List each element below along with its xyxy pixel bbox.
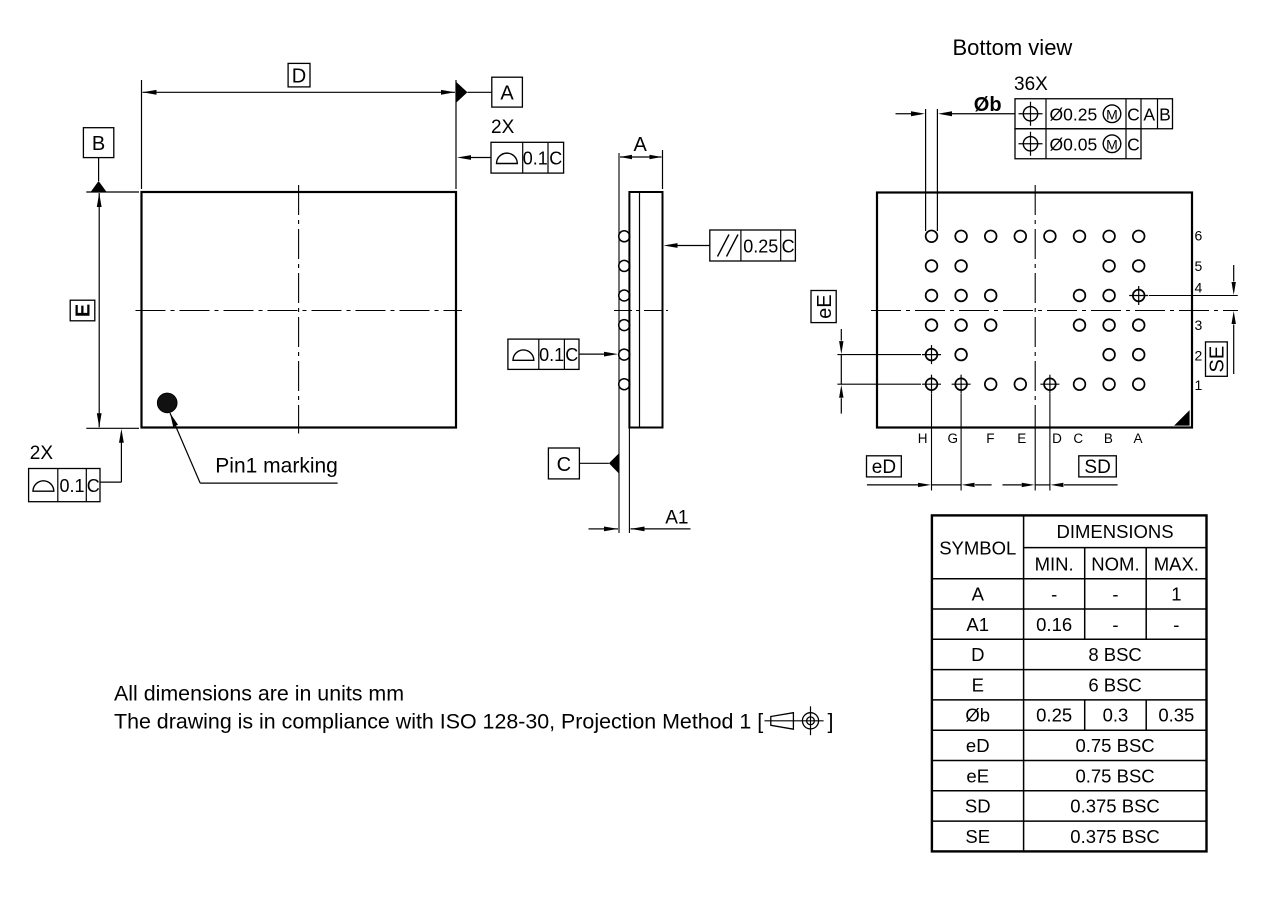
- dimensions table: [932, 515, 1207, 851]
- svg-text:SE: SE: [965, 826, 990, 847]
- ball column letters H-A: [918, 431, 1143, 446]
- datum A boxed label: [492, 77, 523, 107]
- side view package body outline: [629, 192, 662, 428]
- dimension E boxed label (rotated): [70, 300, 95, 321]
- svg-text:8 BSC: 8 BSC: [1088, 644, 1141, 665]
- svg-text:SD: SD: [1084, 457, 1110, 478]
- svg-text:F: F: [986, 431, 994, 446]
- bottom view package body outline: [877, 193, 1192, 428]
- svg-text:Pin1 marking: Pin1 marking: [215, 454, 338, 477]
- svg-text:NOM.: NOM.: [1091, 554, 1139, 575]
- bottom view horizontal centerline: [871, 310, 1238, 312]
- feature control frame: profile 0.1 C (top right): [491, 142, 564, 173]
- svg-text:C: C: [557, 454, 571, 476]
- svg-text:SYMBOL: SYMBOL: [939, 537, 1016, 558]
- 2X count label (top right): [491, 117, 515, 138]
- svg-text:Ø0.25: Ø0.25: [1050, 105, 1098, 125]
- dimension SD extension lines (centerline and ball D1): [1035, 394, 1050, 491]
- dimension eD extension lines from balls H1 G1: [932, 394, 962, 491]
- svg-text:0.35: 0.35: [1158, 705, 1194, 726]
- dimension E extension lines: [86, 192, 139, 428]
- svg-text:A: A: [500, 83, 514, 105]
- datum feature symbol C (filled triangle): [579, 453, 619, 473]
- svg-text:0.1: 0.1: [59, 476, 84, 496]
- svg-text:-: -: [1112, 583, 1118, 604]
- leader arrow from parallelism FCF to package edge: [664, 243, 710, 248]
- svg-text:C: C: [1127, 135, 1140, 155]
- leader from bottom left FCF up to bottom extension line: [100, 429, 124, 482]
- first angle projection symbol: [765, 706, 824, 735]
- svg-text:E: E: [1017, 431, 1026, 446]
- svg-text:A: A: [634, 134, 648, 156]
- svg-text:D: D: [1052, 431, 1062, 446]
- feature control frame: parallelism 0.25 C: [710, 230, 796, 261]
- diameter b label: [974, 94, 1002, 116]
- pin A1 corner index triangle: [1174, 410, 1190, 426]
- svg-text:C: C: [1127, 105, 1140, 125]
- feature control frame: position dia 0.05 M C: [1015, 129, 1141, 159]
- note line 2 with projection method symbol: [114, 709, 833, 733]
- svg-text:0.75 BSC: 0.75 BSC: [1075, 735, 1154, 756]
- feature control frame: position dia 0.25 M C A B: [1015, 99, 1173, 129]
- svg-text:MIN.: MIN.: [1035, 554, 1074, 575]
- svg-text:0.375 BSC: 0.375 BSC: [1070, 826, 1159, 847]
- svg-text:Ø0.05: Ø0.05: [1050, 135, 1098, 155]
- svg-text:MAX.: MAX.: [1154, 554, 1199, 575]
- svg-text:SD: SD: [965, 796, 991, 817]
- svg-text:M: M: [1106, 136, 1118, 152]
- dimension eD boxed label: [867, 456, 902, 478]
- svg-text:2X: 2X: [30, 443, 54, 464]
- svg-text:-: -: [1051, 583, 1057, 604]
- side view substrate/mold parting line: [639, 192, 641, 428]
- svg-text:0.1: 0.1: [523, 149, 548, 169]
- svg-text:A1: A1: [665, 508, 688, 529]
- svg-text:]: ]: [828, 709, 834, 733]
- svg-text:B: B: [1104, 431, 1113, 446]
- svg-text:1: 1: [1195, 377, 1203, 393]
- top view horizontal centerline: [136, 310, 463, 312]
- bottom view title: [953, 35, 1073, 60]
- svg-text:36X: 36X: [1014, 74, 1048, 95]
- ball row numbers 1-6: [1195, 228, 1203, 394]
- side view package bottom extension line below body: [628, 428, 630, 534]
- datum C boxed label: [548, 448, 579, 479]
- svg-text:C: C: [87, 476, 100, 496]
- svg-text:eE: eE: [814, 294, 836, 318]
- svg-text:D: D: [971, 644, 984, 665]
- svg-text:D: D: [292, 66, 306, 88]
- leader arrow from profile FCF to right edge: [457, 155, 491, 160]
- svg-text:Øb: Øb: [974, 94, 1002, 116]
- svg-text:eE: eE: [966, 765, 989, 786]
- svg-text:B: B: [1159, 105, 1171, 125]
- svg-text:eD: eD: [966, 735, 990, 756]
- svg-text:-: -: [1112, 614, 1118, 635]
- svg-text:5: 5: [1195, 258, 1203, 274]
- svg-text:Øb: Øb: [965, 705, 990, 726]
- feature control frame: profile 0.1 C (side view): [508, 339, 579, 369]
- svg-text:0.3: 0.3: [1103, 705, 1129, 726]
- datum B boxed label: [83, 128, 113, 158]
- crosshair marks on referenced balls: [922, 286, 1148, 394]
- svg-text:SE: SE: [1207, 346, 1229, 373]
- svg-text:C: C: [549, 149, 562, 169]
- svg-text:C: C: [565, 345, 578, 365]
- leader arrow from side FCF to seating plane: [579, 352, 618, 357]
- dimension D extension lines: [142, 80, 457, 189]
- svg-text:1: 1: [1171, 583, 1181, 604]
- svg-text:DIMENSIONS: DIMENSIONS: [1056, 521, 1173, 542]
- dimension eE extension lines from balls H2 H1: [837, 355, 921, 385]
- svg-text:B: B: [92, 133, 105, 155]
- svg-text:eD: eD: [872, 457, 896, 478]
- svg-text:3: 3: [1195, 317, 1203, 333]
- top view vertical centerline: [298, 185, 300, 434]
- dimension E dimension line with arrows: [97, 193, 102, 427]
- svg-text:2: 2: [1195, 348, 1203, 364]
- svg-text:0.16: 0.16: [1036, 614, 1072, 635]
- dimension SD dimension line with outside arrows: [1003, 483, 1118, 487]
- dimension SD boxed label: [1079, 456, 1117, 478]
- side view seating plane line (datum C plane): [618, 153, 620, 533]
- 2X count label (bottom left): [30, 443, 54, 464]
- pin1 marking dot: [157, 393, 177, 413]
- dimension eE dimension line with outside arrows: [839, 329, 843, 414]
- svg-text:6: 6: [1195, 228, 1203, 244]
- svg-text:0.375 BSC: 0.375 BSC: [1070, 796, 1159, 817]
- 36X count label: [1014, 74, 1048, 95]
- side view horizontal centerline: [614, 310, 668, 312]
- svg-text:The drawing is in compliance w: The drawing is in compliance with ISO 12…: [114, 709, 763, 733]
- svg-text:G: G: [948, 431, 959, 446]
- dimension A label: [634, 134, 648, 156]
- dimension D boxed label: [288, 63, 310, 87]
- svg-text:A: A: [1133, 431, 1142, 446]
- diameter b extension lines: [926, 109, 938, 231]
- dimension A1 arrows and lines: [589, 527, 691, 532]
- svg-text:0.25: 0.25: [743, 237, 778, 257]
- svg-text:2X: 2X: [491, 117, 515, 138]
- diameter b dimension arrows: [896, 111, 1016, 116]
- dimension A extension line: [662, 150, 664, 189]
- top view package body outline: [142, 192, 457, 428]
- svg-text:6 BSC: 6 BSC: [1088, 674, 1141, 695]
- svg-text:All dimensions are in units mm: All dimensions are in units mm: [114, 681, 404, 705]
- svg-text:A: A: [1143, 105, 1155, 125]
- dimension A dimension line with arrows: [620, 155, 662, 159]
- svg-text:C: C: [1073, 431, 1083, 446]
- dimension A1 label: [665, 508, 688, 529]
- datum feature symbol B (filled triangle): [91, 158, 107, 192]
- dimension SE extension line from ball A4: [1149, 295, 1238, 297]
- dimension eD dimension line with outside arrows: [867, 483, 992, 487]
- note line 1: [114, 681, 404, 705]
- dimension SE boxed label (rotated): [1206, 342, 1229, 376]
- svg-text:E: E: [73, 304, 95, 317]
- bottom view solder ball array (36 balls): [926, 230, 1145, 390]
- feature control frame: profile 0.1 C (bottom left): [29, 469, 100, 502]
- svg-text:0.75 BSC: 0.75 BSC: [1075, 765, 1154, 786]
- svg-text:4: 4: [1195, 280, 1203, 296]
- svg-text:-: -: [1173, 614, 1179, 635]
- dimension SE dimension line with outside arrows: [1232, 265, 1236, 374]
- svg-text:0.1: 0.1: [539, 345, 564, 365]
- side view solder balls: [619, 231, 630, 390]
- datum feature symbol A (filled triangle): [456, 82, 492, 103]
- svg-text:A: A: [972, 583, 985, 604]
- svg-text:H: H: [918, 431, 928, 446]
- svg-text:C: C: [782, 237, 795, 257]
- svg-text:A1: A1: [966, 614, 989, 635]
- svg-text:0.25: 0.25: [1036, 705, 1072, 726]
- dimension D dimension line with arrows: [143, 90, 456, 95]
- svg-text:M: M: [1106, 106, 1118, 122]
- pin1 marking leader and label: [170, 413, 338, 483]
- svg-text:Bottom view: Bottom view: [953, 35, 1073, 60]
- dimension eE boxed label (rotated): [811, 291, 836, 323]
- svg-text:E: E: [972, 674, 984, 695]
- bottom view vertical centerline: [1034, 185, 1036, 434]
